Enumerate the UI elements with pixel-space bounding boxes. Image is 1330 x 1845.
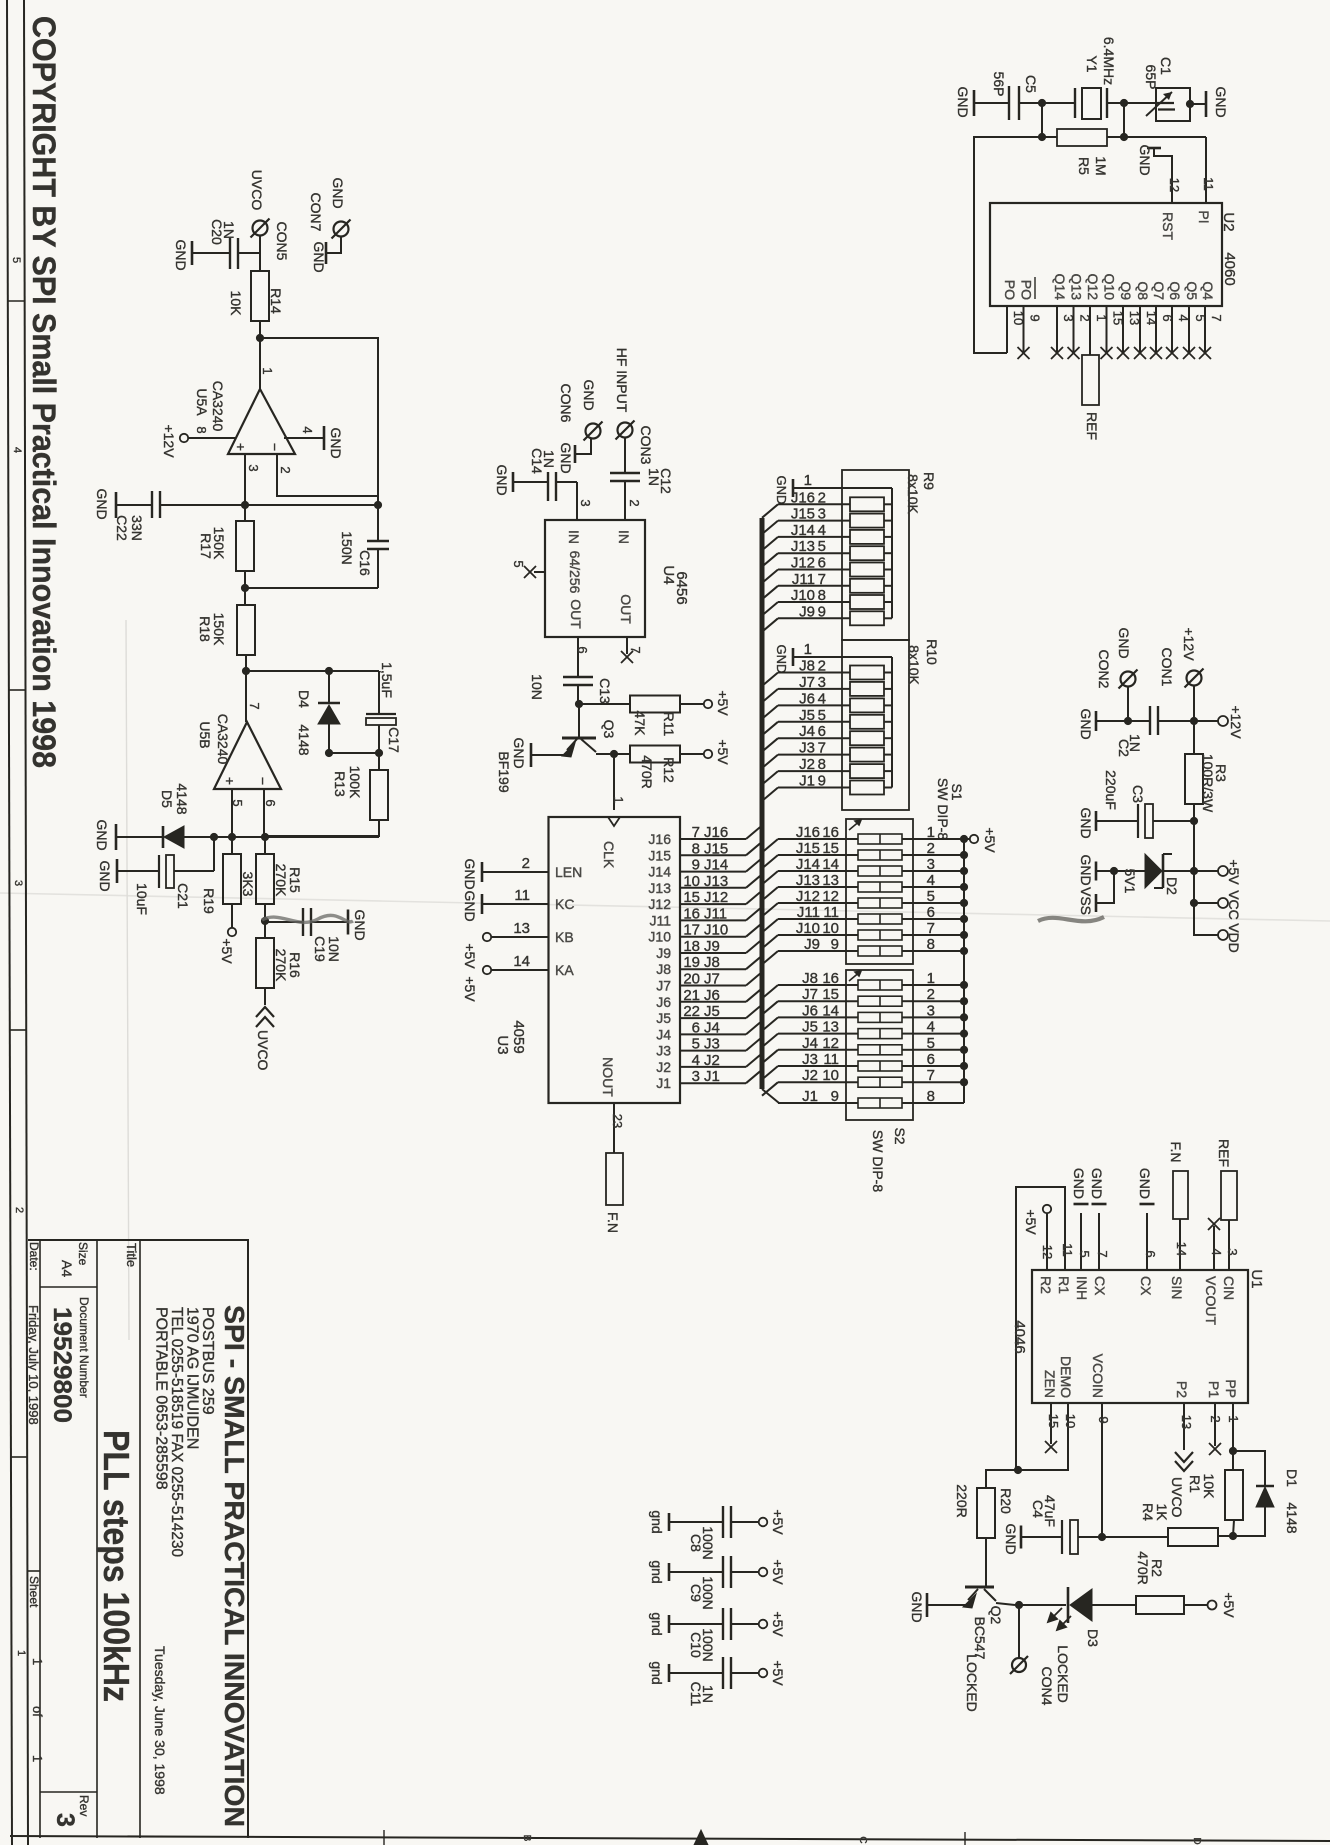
- svg-text:GND: GND: [1003, 1523, 1019, 1554]
- connector CON1: [1187, 671, 1202, 686]
- svg-text:J15: J15: [648, 847, 671, 863]
- svg-text:15: 15: [683, 889, 700, 906]
- svg-text:4046: 4046: [1011, 1320, 1028, 1353]
- ground at D2: [1097, 870, 1114, 872]
- svg-text:C8: C8: [688, 1534, 704, 1552]
- svg-text:2: 2: [13, 1207, 25, 1213]
- svg-text:C1: C1: [1158, 57, 1174, 75]
- U3 pin 10 (J13) wire: [680, 887, 746, 889]
- svg-text:11: 11: [514, 887, 530, 904]
- connector CON3 HF input: [618, 423, 633, 438]
- svg-text:PORTABLE 0653-285598: PORTABLE 0653-285598: [153, 1307, 170, 1490]
- svg-text:13: 13: [822, 1019, 839, 1036]
- border frame inner line: [24, 0, 28, 1845]
- svg-text:J4: J4: [656, 1026, 671, 1042]
- svg-text:8: 8: [818, 756, 826, 773]
- svg-text:1: 1: [30, 1658, 45, 1665]
- node R1-R4: [1229, 1532, 1237, 1540]
- svg-text:INH: INH: [1074, 1276, 1090, 1300]
- wire R14 to node: [259, 321, 261, 338]
- svg-text:PLL steps 100kHz: PLL steps 100kHz: [96, 1430, 137, 1702]
- svg-text:CX: CX: [1138, 1276, 1154, 1296]
- svg-text:+5V: +5V: [1221, 1592, 1237, 1618]
- S1 switch 5 (J12): [762, 903, 778, 917]
- svg-text:C21: C21: [175, 883, 191, 909]
- svg-text:5: 5: [511, 560, 526, 567]
- svg-text:GND: GND: [173, 239, 189, 270]
- resistor R11 47K: [579, 703, 630, 705]
- svg-text:CIN: CIN: [1221, 1276, 1237, 1300]
- svg-text:CA3240: CA3240: [210, 381, 226, 432]
- svg-text:R13: R13: [332, 771, 348, 797]
- svg-text:C10: C10: [688, 1632, 704, 1658]
- svg-text:Title: Title: [124, 1243, 139, 1267]
- svg-text:A4: A4: [59, 1260, 75, 1277]
- svg-text:J3: J3: [799, 740, 815, 757]
- wire R5 to U2 pin11: [1124, 136, 1206, 138]
- svg-text:56P: 56P: [991, 72, 1007, 97]
- svg-text:J15: J15: [796, 840, 820, 857]
- svg-text:8: 8: [818, 587, 826, 604]
- svg-text:+: +: [222, 777, 238, 785]
- U3 pin 9 (J14) wire: [680, 871, 746, 873]
- border bottom fold arrow: [694, 1830, 708, 1845]
- svg-text:D2: D2: [1164, 877, 1180, 895]
- svg-text:1: 1: [611, 796, 626, 803]
- supply +5V at R12: [704, 750, 712, 758]
- svg-text:C5: C5: [1023, 75, 1039, 93]
- svg-text:3: 3: [818, 674, 826, 691]
- diode D5 4148: [116, 836, 163, 838]
- svg-text:DEMO: DEMO: [1058, 1356, 1074, 1398]
- wire feedback top: [260, 338, 378, 541]
- svg-text:LOCKED: LOCKED: [1055, 1645, 1071, 1703]
- svg-text:33N: 33N: [129, 515, 145, 541]
- R10 element 2 (J7): [762, 689, 778, 703]
- svg-text:J5: J5: [799, 707, 815, 724]
- svg-text:20: 20: [683, 971, 700, 988]
- svg-text:J13: J13: [648, 880, 671, 896]
- wire CON2 down: [1127, 687, 1129, 721]
- svg-text:3: 3: [246, 464, 261, 471]
- svg-text:J3: J3: [802, 1051, 818, 1068]
- U3 pin 2 LEN ground: [483, 871, 549, 873]
- svg-text:9: 9: [818, 603, 826, 620]
- svg-text:GND: GND: [494, 464, 510, 495]
- wire pin3 node to feedback: [245, 504, 378, 506]
- svg-text:6: 6: [263, 799, 278, 806]
- svg-text:SW DIP-8: SW DIP-8: [870, 1130, 886, 1192]
- R10 element 7 (J2): [762, 771, 778, 785]
- U2 pin 9 (PO): [1023, 306, 1025, 353]
- svg-text:Y1: Y1: [1084, 55, 1100, 72]
- svg-text:4: 4: [927, 872, 935, 889]
- svg-text:R9: R9: [921, 472, 937, 490]
- svg-text:10: 10: [822, 1067, 839, 1084]
- S2 switch 1 (J8): [762, 985, 778, 999]
- wire CON5 stem: [259, 236, 261, 253]
- U4 pin 5 no-connect: [534, 571, 545, 573]
- svg-text:9: 9: [692, 857, 700, 874]
- U2 PO overline: [1034, 277, 1036, 299]
- svg-text:Q4: Q4: [1200, 281, 1216, 300]
- node R18 output: [242, 667, 250, 675]
- svg-text:100R/3W: 100R/3W: [1200, 754, 1216, 813]
- svg-text:17: 17: [683, 922, 700, 939]
- ground at CON6: [574, 445, 577, 463]
- svg-text:3: 3: [692, 1068, 700, 1085]
- trimmer capacitor C1: [1156, 88, 1190, 121]
- svg-text:CON5: CON5: [274, 222, 290, 261]
- U3 pin 13 KB +5V: [483, 933, 491, 941]
- ground at C4: [1020, 1526, 1023, 1549]
- svg-text:4: 4: [818, 690, 826, 707]
- svg-text:5: 5: [230, 799, 245, 806]
- svg-text:SPI - SMALL PRACTICAL INNOVATI: SPI - SMALL PRACTICAL INNOVATION: [219, 1305, 250, 1827]
- node C13-R11-Q3: [575, 700, 583, 708]
- U3 pin 14 KA +5V: [483, 966, 491, 974]
- svg-text:2: 2: [1208, 1415, 1223, 1422]
- U5B pin 5 wire: [231, 789, 233, 837]
- U1 pin 15 no-connect: [1050, 1403, 1052, 1444]
- resistor R16 270K: [264, 921, 266, 938]
- supply +12V tap: [1194, 720, 1218, 722]
- U5B pin 6 wire: [263, 789, 265, 837]
- svg-text:9: 9: [1096, 1416, 1111, 1423]
- svg-text:3: 3: [12, 880, 24, 886]
- svg-text:23: 23: [610, 1114, 625, 1128]
- title block divider date-sheet: [28, 1570, 40, 1572]
- svg-text:R5: R5: [1076, 157, 1092, 175]
- R10 element 1 (J8): [762, 673, 778, 687]
- svg-text:100K: 100K: [347, 766, 363, 799]
- svg-text:J15: J15: [791, 506, 815, 523]
- svg-text:U1: U1: [1248, 1269, 1265, 1288]
- svg-text:J4: J4: [802, 1035, 818, 1052]
- U3 pin 19 (J8) wire: [680, 968, 746, 970]
- svg-text:220uF: 220uF: [1103, 770, 1119, 810]
- svg-text:7: 7: [1095, 1250, 1110, 1257]
- svg-text:S2: S2: [892, 1127, 908, 1144]
- svg-text:9: 9: [831, 936, 839, 953]
- svg-text:270K: 270K: [273, 949, 289, 982]
- capacitor C12 1N: [624, 438, 626, 473]
- svg-text:5: 5: [818, 707, 826, 724]
- svg-text:J9: J9: [704, 938, 720, 955]
- S1 switch 7 (J10): [762, 935, 778, 949]
- U2 pin 6 (Q7): [1155, 306, 1157, 353]
- svg-text:Q13: Q13: [1069, 274, 1085, 301]
- svg-text:7: 7: [1209, 314, 1224, 321]
- node R15-C19: [261, 917, 269, 925]
- U2 pin 7 (Q4): [1204, 306, 1206, 353]
- svg-text:Q5: Q5: [1184, 281, 1200, 300]
- S1 switch 6 (J11): [762, 919, 778, 933]
- S2 switch 5 (J4): [762, 1050, 778, 1064]
- svg-text:5: 5: [1077, 1250, 1092, 1257]
- svg-text:R17: R17: [198, 533, 214, 559]
- net connector UVCO at U1: [1175, 1452, 1193, 1471]
- U3 pin 6 (J4) wire: [680, 1033, 746, 1035]
- svg-text:GND: GND: [1089, 1168, 1105, 1199]
- svg-text:10: 10: [822, 920, 839, 937]
- capacitor C22 33N: [116, 504, 152, 506]
- svg-text:+5V: +5V: [715, 690, 731, 716]
- svg-text:gnd: gnd: [649, 1612, 665, 1635]
- R9 element 4 (J13): [762, 553, 778, 567]
- title block divider date/size: [39, 1240, 41, 1838]
- svg-text:8: 8: [692, 840, 700, 857]
- U3 clock wedge: [608, 817, 620, 826]
- svg-text:1M: 1M: [1093, 156, 1109, 175]
- crystal Y1: [1074, 88, 1076, 118]
- U2 pin 5 (Q5): [1188, 306, 1190, 353]
- svg-text:9: 9: [1028, 314, 1043, 321]
- svg-text:+12V: +12V: [1228, 705, 1244, 739]
- svg-text:J10: J10: [648, 929, 671, 945]
- resistor network R9 8x10K outline: [842, 470, 909, 640]
- supply VCC tap: [1193, 871, 1195, 903]
- supply +5V at R19: [228, 928, 236, 936]
- R10 element 4 (J5): [762, 722, 778, 736]
- svg-text:C19: C19: [312, 936, 328, 962]
- svg-text:J15: J15: [704, 840, 728, 857]
- border frame outer line: [7, 0, 12, 1845]
- svg-text:J5: J5: [802, 1019, 818, 1036]
- capacitor C20 1N: [192, 252, 230, 254]
- svg-text:R1: R1: [1187, 1475, 1203, 1493]
- svg-text:4148: 4148: [296, 724, 312, 755]
- svg-text:10: 10: [1063, 1414, 1078, 1428]
- svg-text:P1: P1: [1206, 1381, 1222, 1398]
- U1 pin 12 +5V: [1043, 1205, 1051, 1213]
- svg-text:11: 11: [1060, 1243, 1075, 1257]
- connector CON7: [334, 222, 349, 237]
- svg-text:+5V: +5V: [462, 976, 478, 1002]
- svg-text:7: 7: [818, 740, 826, 757]
- transistor Q3 BF199: [578, 704, 580, 738]
- connector CON6: [586, 424, 601, 439]
- svg-text:J10: J10: [791, 587, 815, 604]
- svg-text:R11: R11: [661, 712, 677, 737]
- R9 element 7 (J10): [762, 602, 778, 616]
- ground at Q3: [530, 743, 533, 767]
- svg-text:CON3: CON3: [638, 426, 654, 465]
- op-amp U5B: [214, 722, 281, 789]
- supply +5V at R11: [704, 700, 712, 708]
- wire node to U5B pin7: [245, 671, 247, 722]
- wire C1 to ground: [1190, 103, 1206, 105]
- ground at U2 pin12: [1147, 147, 1161, 150]
- U4 pin 7 no-connect: [626, 637, 628, 654]
- svg-text:J13: J13: [796, 872, 820, 889]
- border frame bottom line: [10, 1836, 1330, 1841]
- svg-text:REF: REF: [1216, 1139, 1232, 1167]
- svg-text:4: 4: [927, 1019, 935, 1036]
- svg-text:R15: R15: [287, 867, 303, 893]
- svg-text:6: 6: [1143, 1250, 1158, 1257]
- svg-text:C: C: [857, 1836, 868, 1843]
- svg-text:1970 AG IJMUIDEN: 1970 AG IJMUIDEN: [184, 1307, 201, 1449]
- resistor R18 150K: [244, 588, 246, 605]
- svg-text:+5V: +5V: [982, 827, 998, 853]
- svg-text:VCOIN: VCOIN: [1090, 1354, 1106, 1398]
- svg-text:4148: 4148: [174, 783, 190, 814]
- svg-text:14: 14: [1174, 1242, 1189, 1256]
- svg-text:6: 6: [818, 723, 826, 740]
- svg-text:12: 12: [1167, 178, 1182, 192]
- S1 switch 4 (J13): [762, 887, 778, 901]
- svg-text:UVCO: UVCO: [255, 1030, 271, 1071]
- svg-text:11: 11: [823, 904, 839, 921]
- svg-text:VCC: VCC: [1226, 890, 1242, 920]
- svg-text:12: 12: [822, 888, 839, 905]
- svg-text:12: 12: [822, 1035, 839, 1052]
- svg-text:6.4MHz: 6.4MHz: [1101, 37, 1117, 85]
- svg-text:4: 4: [11, 447, 23, 453]
- supply +5V tap: [1194, 870, 1218, 872]
- svg-text:+5V: +5V: [1226, 859, 1242, 885]
- svg-text:2: 2: [818, 658, 826, 675]
- svg-text:16: 16: [822, 970, 839, 987]
- wire node to opamp U5A pin1: [259, 338, 261, 389]
- svg-text:J9: J9: [799, 603, 815, 620]
- svg-text:GND: GND: [94, 819, 110, 850]
- U1 pin 2 no-connect: [1214, 1403, 1216, 1446]
- svg-text:5: 5: [692, 1036, 700, 1053]
- svg-text:GND: GND: [774, 645, 789, 674]
- U1 pin 10 wire: [1016, 1403, 1068, 1470]
- svg-text:J11: J11: [704, 905, 727, 922]
- led D3 LOCKED: [1019, 1604, 1066, 1606]
- svg-text:CLK: CLK: [601, 841, 617, 869]
- svg-text:Tuesday, June 30, 1998: Tuesday, June 30, 1998: [152, 1646, 168, 1795]
- svg-text:7: 7: [818, 571, 826, 588]
- S1 switch 8 (J9): [762, 951, 778, 965]
- svg-text:11: 11: [823, 1051, 839, 1068]
- ground VSS branch: [1097, 871, 1114, 903]
- svg-text:13: 13: [822, 872, 839, 889]
- svg-text:CON1: CON1: [1159, 648, 1175, 687]
- svg-text:J10: J10: [796, 920, 820, 937]
- svg-text:CON4: CON4: [1039, 1667, 1055, 1706]
- svg-text:2: 2: [927, 986, 935, 1003]
- svg-text:14: 14: [822, 856, 839, 873]
- svg-text:J3: J3: [656, 1043, 671, 1059]
- svg-text:OUT: OUT: [618, 594, 634, 624]
- svg-text:F.N: F.N: [605, 1212, 621, 1233]
- U3 pin 18 (J9) wire: [680, 952, 746, 954]
- svg-text:GND: GND: [558, 442, 574, 473]
- svg-text:NOUT: NOUT: [600, 1057, 616, 1097]
- capacitor C21 10uF: [213, 837, 215, 871]
- capacitor C3 220uF: [1153, 820, 1194, 822]
- svg-text:C22: C22: [114, 515, 130, 541]
- svg-text:J14: J14: [704, 857, 728, 874]
- svg-text:+5V: +5V: [219, 938, 235, 964]
- svg-text:RST: RST: [1160, 212, 1176, 240]
- svg-text:Q2: Q2: [988, 1606, 1004, 1625]
- svg-text:J11: J11: [797, 904, 820, 921]
- svg-text:21: 21: [683, 987, 700, 1004]
- R10 common rail: [891, 657, 893, 788]
- S2 switch 4 (J5): [762, 1034, 778, 1048]
- svg-text:J12: J12: [796, 888, 820, 905]
- svg-text:VDD: VDD: [1226, 923, 1242, 953]
- svg-text:C13: C13: [597, 678, 613, 704]
- svg-text:7: 7: [247, 702, 262, 709]
- svg-text:CON2: CON2: [1096, 650, 1112, 689]
- svg-text:15: 15: [822, 840, 839, 857]
- R10 element 5 (J4): [762, 738, 778, 752]
- title block divider size-docnum: [40, 1286, 97, 1288]
- svg-text:C16: C16: [357, 550, 373, 576]
- svg-text:5: 5: [927, 888, 935, 905]
- svg-text:CON6: CON6: [558, 384, 574, 423]
- node D5-C21: [210, 833, 218, 841]
- svg-text:R10: R10: [924, 639, 940, 665]
- svg-text:B: B: [521, 1835, 532, 1842]
- net flag F.N at U3: [606, 1153, 623, 1205]
- svg-text:CX: CX: [1092, 1276, 1108, 1296]
- op-amp U5A: [228, 389, 295, 454]
- svg-text:J14: J14: [791, 522, 815, 539]
- svg-text:7: 7: [692, 824, 700, 841]
- svg-text:7: 7: [628, 646, 643, 653]
- ground at C1: [1205, 91, 1208, 117]
- svg-text:R19: R19: [201, 888, 217, 914]
- connector CON5: [253, 221, 268, 236]
- svg-text:R16: R16: [287, 952, 303, 978]
- zener diode D2 5V1: [1163, 870, 1194, 872]
- U2 pin 2 (Q13): [1073, 306, 1075, 353]
- S2 switch 8 (J1): [762, 1089, 779, 1103]
- svg-text:VCOUT: VCOUT: [1203, 1276, 1219, 1325]
- capacitor C13 10N: [563, 676, 593, 678]
- svg-text:GND: GND: [462, 858, 478, 889]
- svg-text:R20: R20: [998, 1488, 1014, 1514]
- svg-text:D1: D1: [1284, 1469, 1300, 1487]
- U2 pin 10 (PO): [1006, 306, 1008, 353]
- R10 element 6 (J3): [762, 755, 778, 769]
- svg-text:+5V: +5V: [715, 739, 731, 765]
- title block divider size/title: [96, 1240, 98, 1838]
- resistor R14 10K: [251, 271, 269, 321]
- svg-text:KB: KB: [555, 929, 574, 945]
- svg-text:POSTBUS 259: POSTBUS 259: [199, 1307, 216, 1415]
- svg-text:J1: J1: [802, 1088, 818, 1105]
- svg-text:Size: Size: [76, 1242, 90, 1266]
- svg-text:47K: 47K: [632, 711, 648, 737]
- U3 pin 22 (J5) wire: [680, 1017, 746, 1019]
- switch S2 SW DIP-8 outline: [846, 970, 913, 1120]
- svg-text:8x10K: 8x10K: [905, 474, 921, 514]
- svg-text:gnd: gnd: [649, 1560, 665, 1583]
- svg-text:J6: J6: [802, 1002, 818, 1019]
- svg-text:GND: GND: [774, 476, 789, 505]
- U3 pin 15 (J12) wire: [680, 903, 746, 905]
- svg-text:3: 3: [51, 1813, 79, 1827]
- svg-text:5: 5: [818, 538, 826, 555]
- switch S1 SW DIP-8 outline: [846, 819, 913, 964]
- svg-text:UVCO: UVCO: [1169, 1477, 1185, 1518]
- svg-text:J8: J8: [704, 954, 720, 971]
- svg-text:of: of: [30, 1706, 45, 1717]
- svg-text:1N: 1N: [221, 221, 237, 239]
- svg-text:Q8: Q8: [1135, 281, 1151, 300]
- svg-text:GND: GND: [1213, 86, 1229, 117]
- svg-text:J12: J12: [791, 555, 815, 572]
